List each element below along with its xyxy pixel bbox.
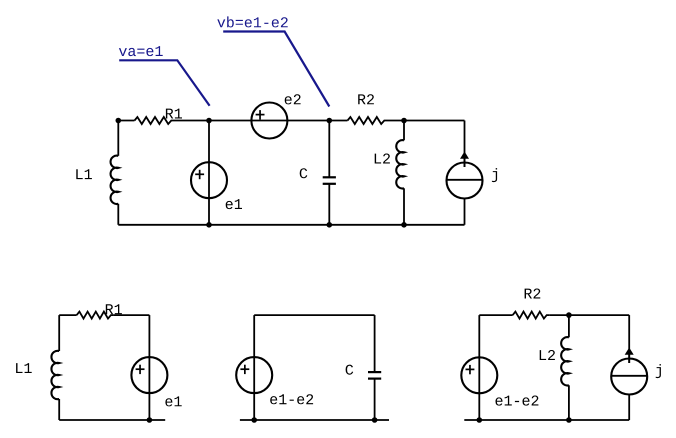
junction C bottom xyxy=(327,222,333,228)
node label vb=e1-e2 xyxy=(217,16,287,27)
subckt3 junction source bottom xyxy=(477,417,483,423)
subckt1 wire top-left segment xyxy=(59,314,76,316)
subckt1 resistor R1 xyxy=(77,312,114,319)
capacitor C wire lower xyxy=(328,184,330,225)
subckt2 label C xyxy=(346,365,354,375)
subckt3 current source j xyxy=(611,359,647,395)
subckt3 wire top-left segment xyxy=(479,314,512,316)
subckt1 junction e1 bottom xyxy=(147,417,153,423)
resistor R1 xyxy=(135,117,175,124)
subckt3 inductor L2 xyxy=(561,337,569,385)
subckt3 inductor L2 wire lower xyxy=(568,385,570,420)
node va callout leader xyxy=(119,60,209,106)
capacitor C wire upper xyxy=(328,121,330,178)
label C xyxy=(300,168,308,178)
subckt2 junction C bottom xyxy=(372,417,378,423)
subckt3 label j xyxy=(656,364,661,378)
subckt2 capacitor C xyxy=(368,371,381,373)
capacitor C xyxy=(323,176,336,178)
junction L2 bottom xyxy=(401,222,407,228)
subckt1 inductor L1 wire lower xyxy=(58,399,60,420)
subckt1 inductor L1 wire upper xyxy=(58,315,60,351)
wire top-left segment (node A to R1) xyxy=(118,120,134,122)
junction node A (va) top-left xyxy=(116,118,122,124)
subckt2 voltage source e1-e2 xyxy=(236,357,272,393)
subckt1 label L1 xyxy=(16,363,32,373)
junction e1 bottom xyxy=(206,222,212,228)
inductor L1 wire upper xyxy=(117,121,119,156)
label e1 xyxy=(226,199,242,209)
label L2 xyxy=(375,154,390,164)
resistor R2 xyxy=(348,117,388,124)
junction node L2 top xyxy=(401,118,407,124)
inductor L2 wire lower xyxy=(403,188,405,225)
inductor L2 wire upper xyxy=(403,121,405,141)
label L1 xyxy=(76,169,92,179)
subckt2 wire bottom rail with stubs xyxy=(240,419,389,421)
wire bottom rail xyxy=(118,224,464,226)
wire R1 to node va (through e2) xyxy=(175,120,348,122)
inductor L2 xyxy=(396,140,404,188)
subckt3 wire top rail L2 to corner xyxy=(569,314,629,316)
voltage source e2 xyxy=(251,103,287,139)
subckt3 label e1-e2 xyxy=(496,396,539,406)
label R2 xyxy=(358,94,374,104)
subckt3 junction L2 top xyxy=(566,312,572,318)
subckt2 label e1-e2 xyxy=(270,394,313,404)
label j xyxy=(492,168,497,182)
current source j wire upper xyxy=(464,121,466,168)
subckt3 wire R2 to L2 node xyxy=(550,314,569,316)
subckt1 wire bottom rail with stub xyxy=(59,419,165,421)
current source j xyxy=(447,163,483,199)
subckt1 label R1 xyxy=(106,304,122,314)
subckt2 wire top rail xyxy=(254,314,374,316)
subckt3 voltage source e1-e2 wire xyxy=(478,315,480,420)
wire R2 to top-right corner xyxy=(388,120,465,122)
subckt3 inductor L2 wire upper xyxy=(568,315,570,337)
subckt1 inductor L1 xyxy=(51,351,59,399)
subckt1 wire R1 to top-right corner xyxy=(114,314,149,316)
subckt2 capacitor C wire lower xyxy=(374,378,376,420)
node vb callout leader xyxy=(223,32,329,107)
subckt3 current source j wire lower xyxy=(628,395,630,421)
subckt3 junction L2 bottom xyxy=(566,417,572,423)
subckt1 label e1 xyxy=(165,396,181,406)
subckt3 voltage source e1-e2 xyxy=(461,357,497,393)
label R1 xyxy=(166,109,182,119)
junction node vb xyxy=(327,118,333,124)
node label va=e1 xyxy=(119,46,163,56)
inductor L1 wire lower xyxy=(117,204,119,225)
voltage source e1 xyxy=(191,162,227,198)
subckt2 junction source bottom xyxy=(251,417,257,423)
subckt3 wire bottom rail with stub xyxy=(464,419,629,421)
subckt1 voltage source e1 wire xyxy=(148,315,150,420)
subckt2 voltage source e1-e2 wire xyxy=(253,315,255,420)
subckt1 voltage source e1 xyxy=(131,357,167,393)
subckt3 resistor R2 xyxy=(513,312,550,319)
junction node va xyxy=(206,118,212,124)
current source j wire lower xyxy=(464,199,466,225)
subckt3 label R2 xyxy=(525,289,541,299)
voltage source e1 wire xyxy=(208,121,210,225)
subckt3 label L2 xyxy=(540,350,555,360)
subckt2 capacitor C wire upper xyxy=(374,315,376,372)
subckt3 current source j wire upper xyxy=(628,315,630,363)
label e2 xyxy=(285,94,301,104)
inductor L1 xyxy=(111,156,119,204)
